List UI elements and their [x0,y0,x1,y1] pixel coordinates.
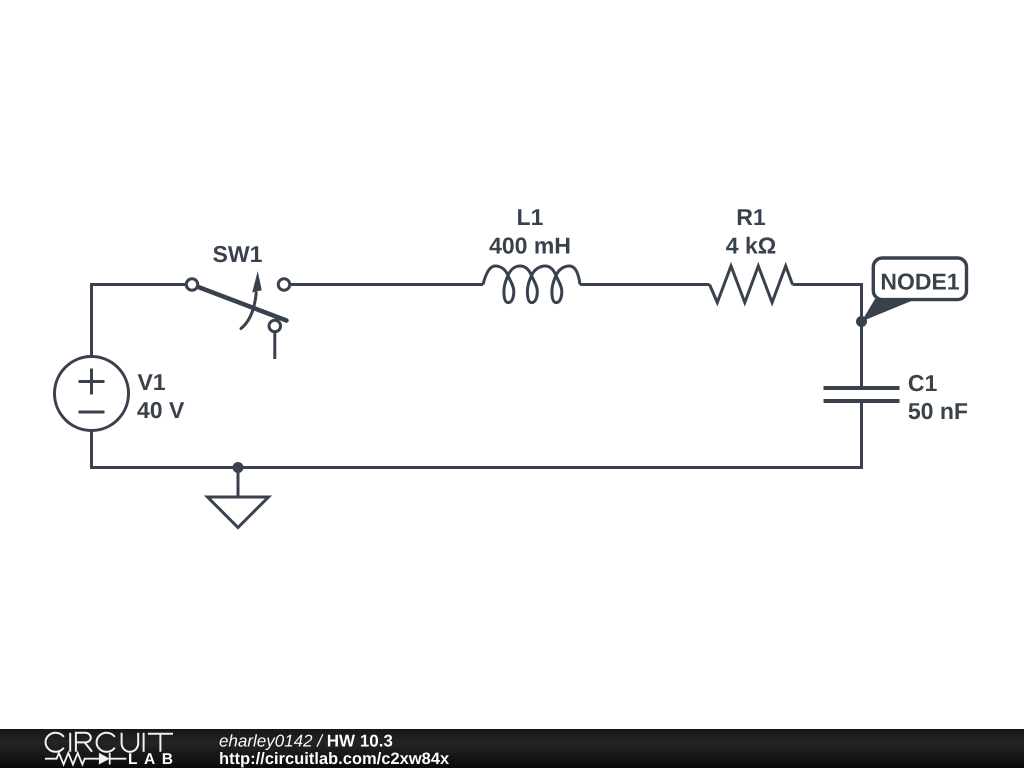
logo letter I [69,733,71,752]
label C1 [909,375,937,391]
voltage source V1 [55,357,129,431]
logo letter T [148,734,173,752]
label 40 V [137,402,184,418]
label SW1 [213,246,262,262]
label 50 nF [909,403,968,419]
switch SW1 arrowhead [252,271,262,293]
logo CIRCUIT letters [46,733,173,752]
logo letter R [76,733,92,752]
junction dot NODE1 [856,316,867,327]
capacitor C1 [824,388,900,401]
junction dot ground [233,462,244,473]
label L1 [518,209,543,225]
logo LAB [129,753,172,764]
ground [208,497,269,528]
logo letter C [97,733,115,752]
wire: capacitor bottom, bottom rail, up to V1 bottom [92,401,862,468]
wire: V1 top to switch left terminal [92,285,186,357]
label R1 [738,209,765,225]
label 4 kOhm [726,237,775,254]
switch SW1 blade [193,285,287,321]
logo resistor-diode glyph [45,753,127,765]
switch SW1 arrow arc [241,293,256,329]
switch SW1 lower stub [273,333,276,359]
wire: inductor to resistor [580,283,710,286]
switch SW1 terminal circles [186,279,198,291]
footer user/title [220,734,393,750]
logo diode triangle [99,753,110,765]
wire: ground stub [237,468,240,498]
NODE1 flag bubble [873,258,966,300]
resistor R1 [710,266,793,303]
inductor L1 [483,266,580,303]
footer bar [0,729,1024,768]
wire: resistor to top-right corner, down to capacitor [793,285,862,389]
wire: switch right terminal to inductor [291,283,483,286]
footer url [220,752,449,767]
NODE1 flag tail [862,299,913,322]
logo letter C [46,733,64,752]
logo letter U [122,733,139,752]
label NODE1 [882,273,959,289]
label 400 mH [489,237,569,253]
label V1 [138,374,165,390]
logo letter I [143,733,145,752]
